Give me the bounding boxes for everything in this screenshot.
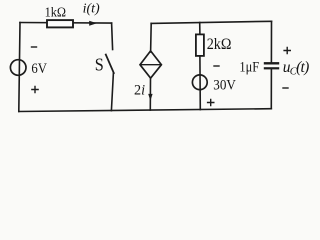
svg-text:6V: 6V: [31, 61, 47, 77]
wire dependent-source branch lower: [149, 78, 151, 110]
resistor R1 1kOhm: [47, 20, 73, 27]
source V2 30V circle: [192, 75, 207, 90]
svg-text:1μF: 1μF: [239, 59, 259, 75]
switch S blade: [106, 55, 114, 73]
svg-text:1kΩ: 1kΩ: [45, 4, 67, 19]
wire top right loop: [151, 21, 271, 23]
current arrow i(t): [89, 21, 97, 26]
svg-text:30V: 30V: [213, 78, 236, 94]
svg-text:uC(t): uC(t): [283, 59, 309, 78]
wire switch branch upper: [112, 23, 113, 49]
svg-text:2kΩ: 2kΩ: [207, 36, 232, 53]
plus sign V1: [31, 86, 39, 94]
minus sign C1: [282, 87, 288, 89]
dependent source 2i diamond: [140, 51, 161, 78]
capacitor C1 plates: [264, 62, 279, 64]
plus sign V2: [207, 99, 215, 107]
wire left vertical: [19, 23, 20, 112]
svg-text:2i: 2i: [134, 83, 145, 99]
diamond inner bar: [140, 64, 161, 66]
svg-text:i(t): i(t): [83, 2, 100, 17]
minus sign V1: [31, 46, 37, 48]
wire 30V branch vertical: [199, 23, 202, 110]
source V1 6V circle: [10, 60, 26, 76]
resistor R2 2kOhm: [196, 34, 204, 56]
arrowhead 2i downward: [148, 94, 152, 101]
wire capacitor branch upper: [270, 21, 272, 63]
wire capacitor branch lower: [270, 68, 272, 108]
wire top left loop: [20, 22, 112, 25]
plus sign C1: [283, 47, 291, 55]
wire dependent-source branch upper: [150, 23, 153, 52]
wire bottom: [19, 109, 271, 112]
svg-text:S: S: [95, 55, 104, 75]
wire switch branch lower: [111, 73, 113, 111]
minus sign V2: [213, 65, 219, 67]
